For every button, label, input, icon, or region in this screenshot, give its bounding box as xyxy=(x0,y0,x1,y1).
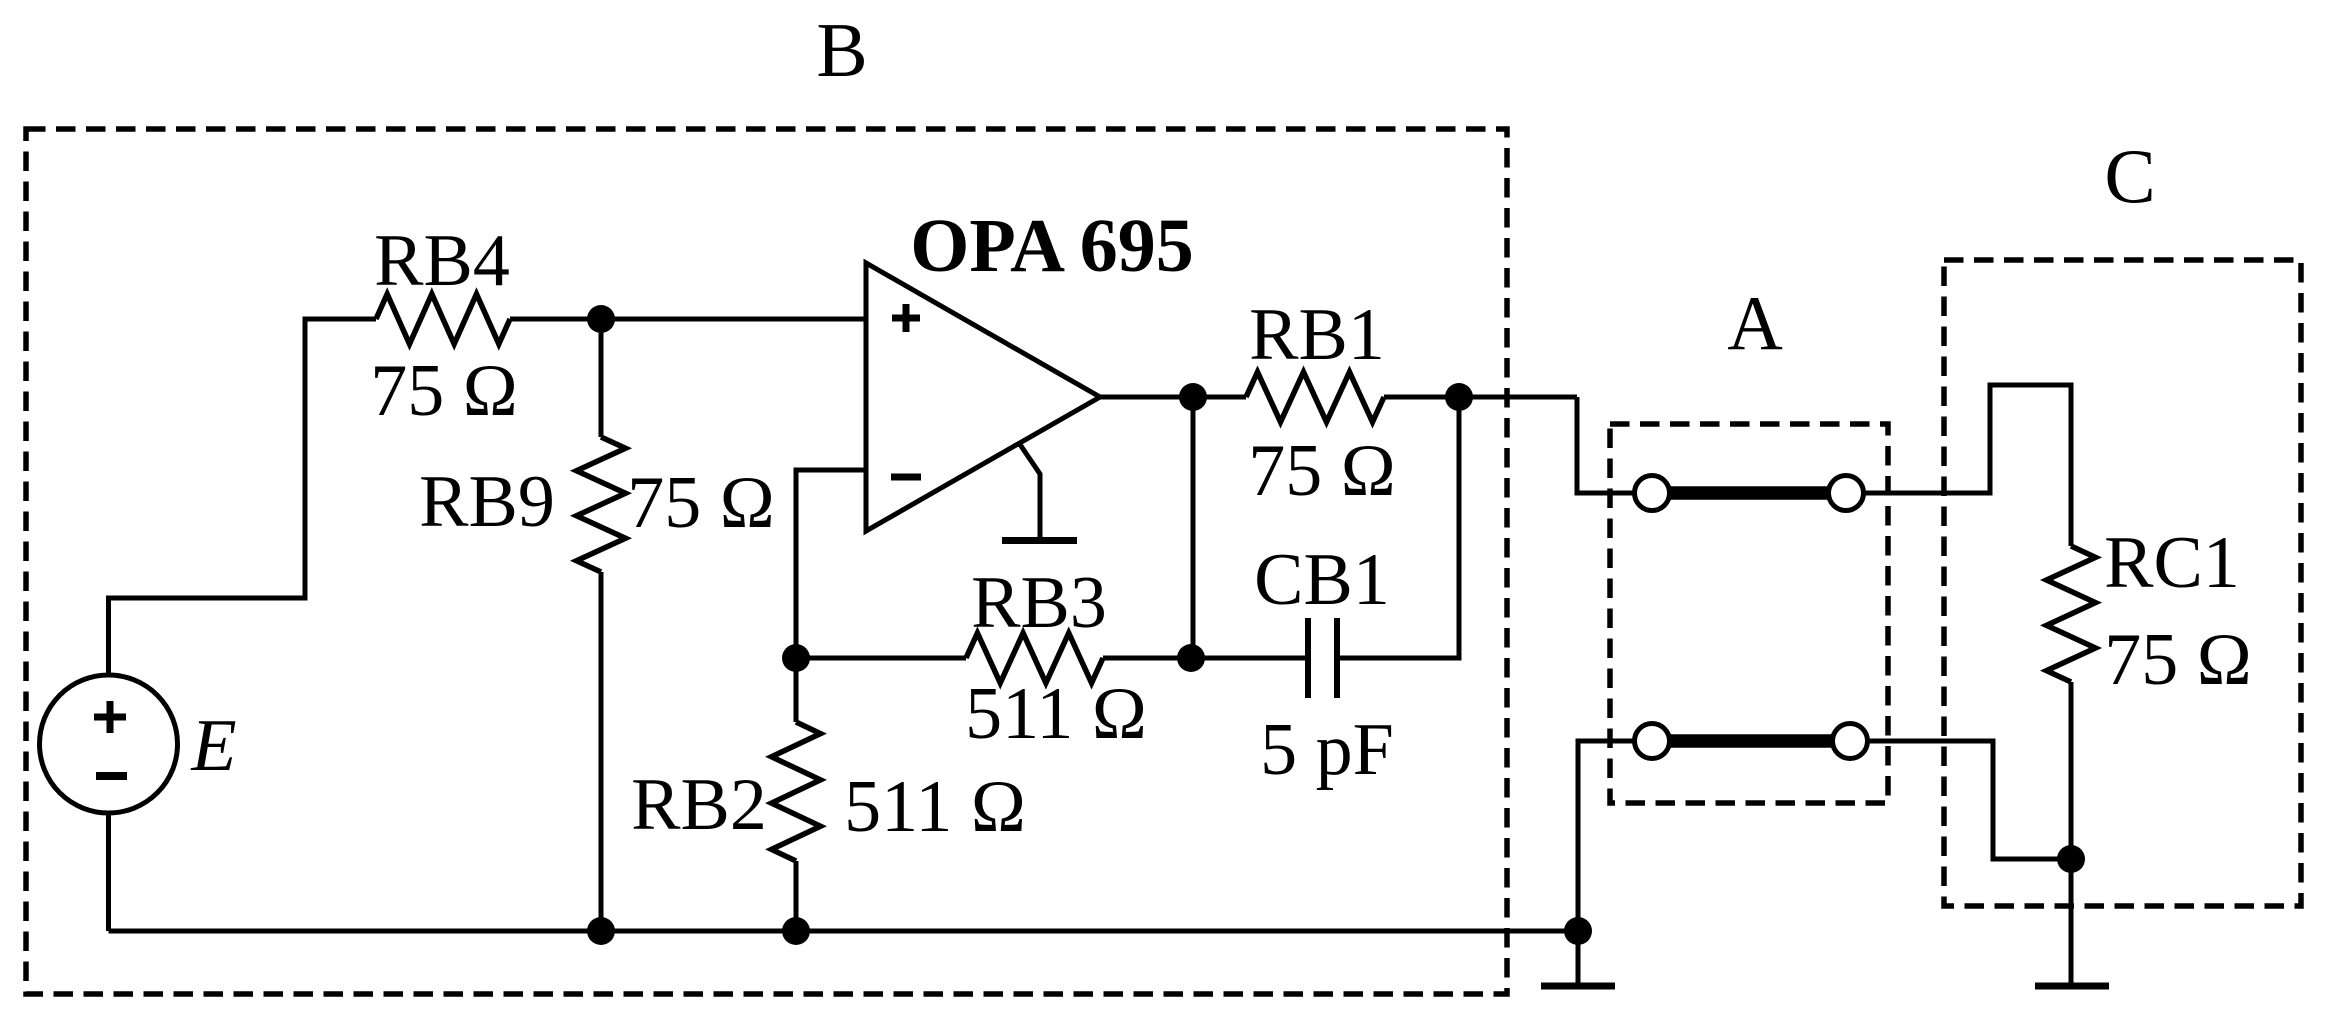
svg-text:5 pF: 5 pF xyxy=(1260,709,1394,791)
dashed box A xyxy=(1610,424,1888,803)
terminal circle bottom-right xyxy=(1833,724,1868,759)
node: RB2 bottom on rail xyxy=(782,917,810,945)
wire: bottom ground rail xyxy=(109,929,1579,934)
wire: CB1 right plate to right riser xyxy=(1340,397,1459,658)
wire: RB1 right to B border exit xyxy=(1384,395,1577,400)
svg-text:C: C xyxy=(2104,133,2155,219)
svg-text:75 Ω: 75 Ω xyxy=(2104,619,2252,701)
svg-text:75 Ω: 75 Ω xyxy=(1248,430,1396,512)
transmission line A top: thick segment xyxy=(1669,486,1829,500)
svg-text:A: A xyxy=(1727,280,1783,366)
svg-text:RB4: RB4 xyxy=(374,220,510,302)
resistor RB3 xyxy=(966,633,1103,683)
wire: RB2 bottom lead xyxy=(794,861,799,931)
wire: RC1 bottom lead to ground xyxy=(2069,682,2074,983)
ground (op-amp) xyxy=(1002,537,1077,544)
svg-text:E: E xyxy=(190,705,236,787)
svg-text:RB3: RB3 xyxy=(971,562,1107,644)
wire: RB4 right to op-amp + input xyxy=(510,317,866,322)
wire: op-amp inverting input to feedback node xyxy=(796,470,866,658)
wire: line A bottom-left terminal to ground node xyxy=(1578,741,1635,983)
source E - marker xyxy=(96,772,127,780)
terminal circle top-left xyxy=(1635,476,1670,511)
wire: output node down to RB3 node xyxy=(1191,397,1196,658)
svg-text:RB9: RB9 xyxy=(419,461,555,543)
node: RB4/RB9/+input junction xyxy=(587,305,615,333)
wire: line A bottom-right terminal to RC1 node xyxy=(1867,741,2071,859)
op-amp ground stub xyxy=(1019,443,1040,537)
svg-text:511 Ω: 511 Ω xyxy=(844,766,1026,848)
node: RC1 / line A bottom return xyxy=(2057,845,2085,873)
terminal circle bottom-left xyxy=(1635,724,1670,759)
wire: feedback node to RB3 left xyxy=(796,656,966,661)
resistor RB2 xyxy=(772,722,821,861)
svg-text:511 Ω: 511 Ω xyxy=(965,673,1147,755)
svg-text:B: B xyxy=(816,7,867,93)
svg-text:RB1: RB1 xyxy=(1249,294,1385,376)
source E + marker xyxy=(94,701,126,733)
capacitor CB1 xyxy=(1308,618,1337,698)
wire: line A top-right terminal to RC1 top xyxy=(1863,385,2071,546)
node: RB1 right / CB1 riser xyxy=(1445,383,1473,411)
svg-text:OPA 695: OPA 695 xyxy=(910,204,1194,288)
transmission line A bottom: thick segment xyxy=(1669,734,1833,748)
node: rail / line A ground xyxy=(1564,917,1592,945)
ground (line A / bottom rail) xyxy=(1541,983,1615,990)
wire: RB3 right to node xyxy=(1103,656,1191,661)
ground (RC1) xyxy=(2035,983,2109,990)
svg-text:75 Ω: 75 Ω xyxy=(370,350,518,432)
op-amp - input marker xyxy=(891,474,921,481)
node: feedback RB2/RB3 xyxy=(782,644,810,672)
wire: RB2 top lead xyxy=(794,658,799,722)
svg-text:75 Ω: 75 Ω xyxy=(627,462,775,544)
op-amp U1 OPA 695 xyxy=(866,263,1100,531)
wire: RB9 top lead xyxy=(599,319,604,437)
node: RB3/CB1/output riser xyxy=(1177,644,1205,672)
wire: E top lead up to RB4 left xyxy=(109,319,377,675)
svg-text:RB2: RB2 xyxy=(631,764,767,846)
resistor RC1 xyxy=(2047,546,2096,682)
svg-text:CB1: CB1 xyxy=(1254,539,1390,621)
resistor RB9 xyxy=(577,437,626,572)
op-amp + input marker xyxy=(892,304,920,332)
svg-text:RC1: RC1 xyxy=(2104,522,2240,604)
resistor RB4 xyxy=(376,294,510,344)
wire: B output down to line A top-left terminal xyxy=(1577,397,1635,493)
wire: op-amp output to RB1 left xyxy=(1100,395,1246,400)
dashed box B xyxy=(26,129,1507,994)
source E xyxy=(40,675,178,813)
resistor RB1 xyxy=(1246,372,1384,422)
wire: RB9 bottom lead xyxy=(599,572,604,931)
node: op-amp output xyxy=(1179,383,1207,411)
node: RB9 bottom on rail xyxy=(587,917,615,945)
dashed box C xyxy=(1944,260,2301,906)
terminal circle top-right xyxy=(1829,476,1864,511)
wire: E bottom lead xyxy=(106,813,111,931)
wire: RB3 node to CB1 left plate xyxy=(1191,656,1305,661)
